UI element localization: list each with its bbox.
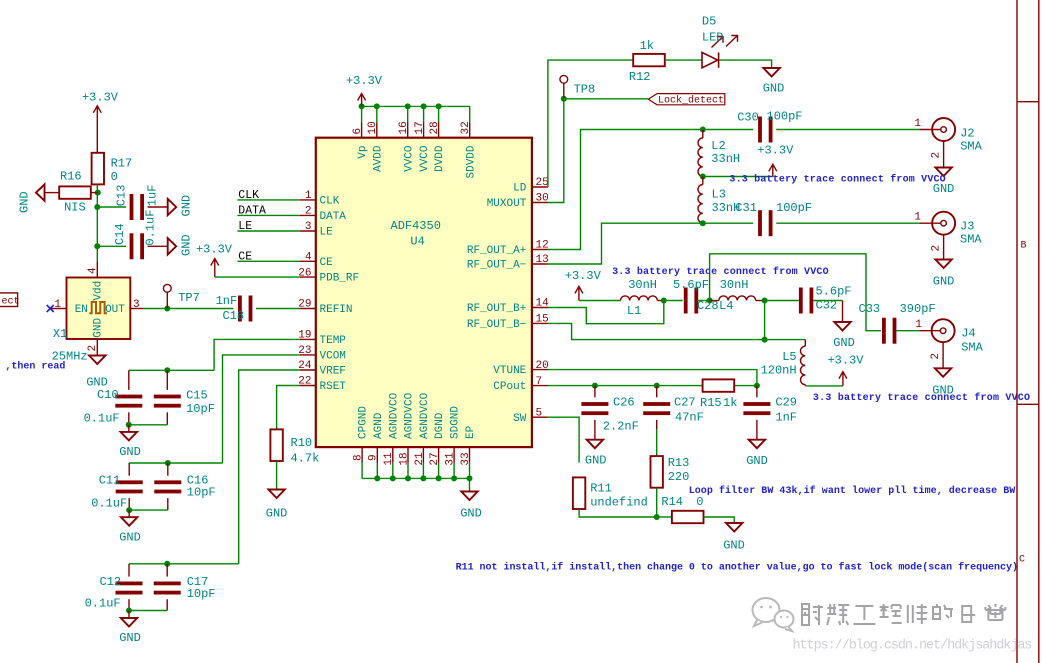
svg-text:3.3 battery trace connect from: 3.3 battery trace connect from VVCO xyxy=(729,174,945,186)
wire R17 bottom to X1 xyxy=(96,184,98,262)
svg-text:undefind: undefind xyxy=(590,496,648,510)
svg-text:J3: J3 xyxy=(960,220,974,234)
wire MUXOUT up xyxy=(548,99,564,203)
svg-text:VVCO: VVCO xyxy=(419,145,431,172)
svg-text:Loop filter BW 43k,if want low: Loop filter BW 43k,if want lower pll tim… xyxy=(689,485,1016,497)
connector J3 SMA xyxy=(919,222,940,224)
svg-text:GND: GND xyxy=(119,445,141,459)
pin 4 X1 top xyxy=(96,262,98,278)
ground C26 xyxy=(587,440,603,449)
svg-text:17: 17 xyxy=(414,121,426,134)
svg-text:L1: L1 xyxy=(627,304,641,318)
inductor L2 xyxy=(702,130,704,139)
svg-text:CPGND: CPGND xyxy=(358,406,370,439)
svg-text:+3.3V: +3.3V xyxy=(565,269,602,283)
pin 29 stub xyxy=(300,308,316,310)
svg-text:R11 not install,if install,the: R11 not install,if install,then change 0… xyxy=(456,562,1018,574)
svg-text:GND: GND xyxy=(585,454,607,468)
wire R10 to gnd xyxy=(276,461,278,490)
wire LE xyxy=(237,230,299,232)
svg-text:GND: GND xyxy=(833,336,855,350)
svg-text:DGND: DGND xyxy=(434,412,446,439)
pin 28 DVDD top stub xyxy=(438,122,440,138)
svg-text:C15: C15 xyxy=(186,389,208,403)
svg-text:C14: C14 xyxy=(113,223,127,245)
svg-text:R15: R15 xyxy=(700,396,722,410)
svg-text:PDB_RF: PDB_RF xyxy=(320,273,360,285)
junction xyxy=(374,475,380,481)
wire LD up to R12 xyxy=(548,60,633,187)
inductor L3 xyxy=(702,177,704,185)
pin 8 CPGND bottom stub xyxy=(361,447,363,463)
svg-text:ect: ect xyxy=(2,296,20,307)
svg-text:29: 29 xyxy=(298,299,311,311)
svg-text:16: 16 xyxy=(398,121,410,134)
watermark wechat icon xyxy=(753,598,794,631)
capacitor C11 xyxy=(128,463,130,476)
svg-text:C18: C18 xyxy=(223,309,245,323)
svg-text:CE: CE xyxy=(320,257,334,269)
wire C26 to gnd xyxy=(594,420,596,440)
wire C11 bank bottom xyxy=(128,498,130,510)
wire node to R14 xyxy=(657,516,672,518)
svg-text:1: 1 xyxy=(915,319,922,331)
svg-text:28: 28 xyxy=(429,121,441,134)
node L4/C32 junction xyxy=(762,298,768,304)
svg-text:SMA: SMA xyxy=(961,341,983,355)
svg-text:R16: R16 xyxy=(60,170,82,184)
svg-text:1k: 1k xyxy=(723,396,737,410)
wire PDB_RF xyxy=(215,276,300,278)
svg-text:CPout: CPout xyxy=(493,381,526,393)
svg-text:L3: L3 xyxy=(712,187,726,201)
sheet border inner line xyxy=(1016,0,1018,663)
junction xyxy=(405,103,411,109)
svg-text:SDVDD: SDVDD xyxy=(465,145,477,178)
wire C12 bank bottom xyxy=(128,599,130,610)
svg-text:GND: GND xyxy=(119,631,141,645)
pin 32 SDVDD top stub xyxy=(469,122,471,138)
border tick 1 xyxy=(1017,101,1039,103)
node L3 bottom xyxy=(700,220,706,226)
svg-text:B: B xyxy=(1020,241,1026,252)
svg-text:C27: C27 xyxy=(674,396,696,410)
svg-text:GND: GND xyxy=(266,507,288,521)
svg-text:120nH: 120nH xyxy=(761,364,797,378)
global label Lock_detect xyxy=(648,94,725,105)
svg-text:CE: CE xyxy=(238,250,252,263)
svg-text:GND: GND xyxy=(119,531,141,545)
capacitor C29 xyxy=(756,386,758,398)
pin 18 AGNDVCO bottom stub xyxy=(407,447,409,463)
wire RF_OUT_B+ detour xyxy=(548,301,664,324)
svg-text:100pF: 100pF xyxy=(776,201,812,215)
IC U4 ADF4350 body xyxy=(316,138,532,447)
svg-text:33nH: 33nH xyxy=(711,152,740,166)
pin 17 VVCO top stub xyxy=(423,122,425,138)
svg-text:30nH: 30nH xyxy=(628,278,657,292)
svg-text:TP7: TP7 xyxy=(178,291,200,305)
top power bus wire xyxy=(362,105,470,107)
watermark CJK text xyxy=(802,604,1005,625)
wire TEMP to C10 bank xyxy=(214,339,300,370)
svg-text:TP8: TP8 xyxy=(574,83,596,97)
svg-text:SMA: SMA xyxy=(960,233,982,247)
svg-text:AGNDVCO: AGNDVCO xyxy=(404,392,416,439)
junction xyxy=(451,475,457,481)
svg-text:0.1uF: 0.1uF xyxy=(85,597,121,611)
ground R14 xyxy=(726,523,742,532)
svg-text:+3.3V: +3.3V xyxy=(196,243,233,257)
capacitor C18 xyxy=(238,296,242,322)
inductor L4 xyxy=(710,300,719,302)
svg-text:C26: C26 xyxy=(613,396,635,410)
wire R13 to node xyxy=(656,488,658,517)
svg-text:30: 30 xyxy=(536,193,549,205)
ground C29 xyxy=(749,440,765,449)
svg-text:19: 19 xyxy=(298,330,311,342)
pin 14 stub xyxy=(532,307,548,309)
svg-text:0.1uF: 0.1uF xyxy=(143,210,157,246)
wire to C13 xyxy=(97,206,126,208)
node C28/L4 junction xyxy=(707,298,713,304)
svg-text:VTUNE: VTUNE xyxy=(493,365,526,377)
svg-text:31: 31 xyxy=(445,452,457,466)
global label ect (cut off) xyxy=(0,293,18,307)
svg-text:AVDD: AVDD xyxy=(372,145,384,172)
junction xyxy=(420,475,426,481)
power +3.3V L5 xyxy=(839,372,847,386)
ground left of R16 xyxy=(44,192,59,194)
connector J2 SMA xyxy=(919,129,940,131)
svg-text:NIS: NIS xyxy=(64,200,86,214)
LED D5 xyxy=(702,52,718,67)
svg-text:2.2nF: 2.2nF xyxy=(603,420,639,434)
resistor R13 xyxy=(651,456,663,488)
svg-text:L5: L5 xyxy=(782,350,796,364)
svg-text:TEMP: TEMP xyxy=(320,335,347,347)
pin 7 stub xyxy=(532,385,548,387)
svg-text:OUT: OUT xyxy=(105,304,125,316)
pin 1 stub xyxy=(300,199,316,201)
resistor R14 xyxy=(672,511,704,523)
capacitor C14 xyxy=(130,233,134,259)
wire R14 to gnd xyxy=(704,517,735,523)
wire to C32 xyxy=(765,300,799,302)
resistor R11 xyxy=(573,477,585,509)
wire C27 to R13 xyxy=(656,420,658,429)
wire C29 to gnd xyxy=(756,420,758,440)
svg-text:11: 11 xyxy=(383,452,395,466)
capacitor C10 xyxy=(128,370,130,390)
svg-text:R13: R13 xyxy=(668,456,690,470)
pin 12 stub xyxy=(532,249,548,251)
wire R16 right lead xyxy=(91,192,98,194)
svg-text:3.3 battery trace connect from: 3.3 battery trace connect from VVCO xyxy=(813,392,1030,404)
svg-text:SDGND: SDGND xyxy=(450,406,462,439)
pin 10 AVDD top stub xyxy=(376,122,378,138)
node TP8 junction xyxy=(561,96,567,102)
svg-text:EP: EP xyxy=(465,425,477,439)
svg-text:J4: J4 xyxy=(961,327,975,341)
wire +3.3V to L1 xyxy=(579,300,621,302)
power +3.3V L2/L3 xyxy=(769,164,777,176)
wire to Lock_detect xyxy=(564,98,649,100)
svg-text:1: 1 xyxy=(54,299,61,311)
svg-text:GND: GND xyxy=(746,454,768,468)
svg-text:9: 9 xyxy=(368,454,380,461)
ground C12 bank xyxy=(128,611,130,619)
svg-text:0.1uF: 0.1uF xyxy=(84,412,120,426)
svg-text:1nF: 1nF xyxy=(216,294,238,308)
svg-text:27: 27 xyxy=(429,452,441,465)
svg-text:R10: R10 xyxy=(291,436,313,450)
svg-text:1: 1 xyxy=(305,190,312,202)
pin 11 AGNDVCO bottom stub xyxy=(392,447,394,463)
svg-text:1uF: 1uF xyxy=(145,185,159,207)
power +3.3V for PDB_RF xyxy=(211,259,219,278)
svg-text:SMA: SMA xyxy=(960,140,982,154)
svg-text:33: 33 xyxy=(460,452,472,465)
svg-text:GND: GND xyxy=(933,275,955,289)
ground X1 xyxy=(89,356,105,365)
pin 24 stub xyxy=(300,369,316,371)
power +3.3V top xyxy=(358,94,366,107)
wire C18 to REFIN xyxy=(256,308,300,310)
svg-text:4: 4 xyxy=(87,267,99,274)
svg-text:R14: R14 xyxy=(661,495,683,509)
svg-text:+3.3V: +3.3V xyxy=(757,144,794,158)
svg-text:GND: GND xyxy=(18,191,32,213)
resistor R12 xyxy=(633,54,665,66)
svg-text:12: 12 xyxy=(536,240,549,252)
svg-text:C: C xyxy=(1019,555,1025,566)
pin 22 stub xyxy=(300,385,316,387)
svg-text:VVCO: VVCO xyxy=(403,145,415,172)
capacitor C15 xyxy=(166,370,168,390)
ground C32 xyxy=(834,322,850,331)
wire C14 to gnd xyxy=(148,245,168,247)
pin 20 stub xyxy=(532,369,548,371)
pin 31 SDGND bottom stub xyxy=(453,447,455,463)
svg-text:GND: GND xyxy=(180,234,194,256)
svg-text:2: 2 xyxy=(931,152,943,159)
resistor R17 xyxy=(92,153,104,185)
svg-text:0.1uF: 0.1uF xyxy=(91,497,127,511)
svg-text:+3.3V: +3.3V xyxy=(82,90,119,104)
svg-text:DATA: DATA xyxy=(320,211,347,223)
wire CLK xyxy=(237,199,299,201)
junction xyxy=(467,475,473,481)
svg-text:X1: X1 xyxy=(53,327,67,341)
pin 21 AGNDVCO bottom stub xyxy=(422,447,424,463)
capacitor C12 xyxy=(128,564,130,577)
svg-text:10pF: 10pF xyxy=(187,486,216,500)
svg-text:2: 2 xyxy=(305,206,312,218)
wire C10 bank bottom xyxy=(128,412,130,425)
pin 16 VVCO top stub xyxy=(407,122,409,138)
svg-text:RF_OUT_B+: RF_OUT_B+ xyxy=(467,303,526,315)
svg-text:EN: EN xyxy=(75,304,88,316)
wire RF_OUT_B- xyxy=(548,323,805,339)
svg-text:20: 20 xyxy=(536,360,549,372)
ground J3 xyxy=(935,260,951,269)
svg-text:C11: C11 xyxy=(99,474,121,488)
junction xyxy=(374,103,380,109)
svg-text:AGNDVCO: AGNDVCO xyxy=(388,392,400,439)
svg-text:C13: C13 xyxy=(114,185,128,207)
svg-text:C12: C12 xyxy=(100,575,122,589)
svg-text:REFIN: REFIN xyxy=(320,304,353,316)
node C29/VTUNE junction xyxy=(754,383,760,389)
svg-text:MUXOUT: MUXOUT xyxy=(487,198,527,210)
capacitor C33 xyxy=(882,318,886,344)
svg-text:R12: R12 xyxy=(629,70,651,84)
svg-text:RSET: RSET xyxy=(320,381,347,393)
junction xyxy=(390,475,396,481)
node C13 tap xyxy=(94,204,100,210)
svg-text:47nF: 47nF xyxy=(675,411,704,425)
svg-text:Vp: Vp xyxy=(357,145,369,158)
ground J4 xyxy=(935,368,951,377)
svg-text:13: 13 xyxy=(536,254,549,266)
wire CE xyxy=(237,260,299,262)
svg-text:D5: D5 xyxy=(702,15,716,29)
pin 5 stub xyxy=(532,416,548,418)
svg-text:+3.3V: +3.3V xyxy=(827,354,864,368)
svg-text:25: 25 xyxy=(536,177,549,189)
ground right of C14 xyxy=(168,238,177,254)
svg-text:4: 4 xyxy=(305,252,312,264)
node C15 tap xyxy=(164,367,170,373)
node R13/R14 junction xyxy=(654,514,660,520)
svg-text:26: 26 xyxy=(298,267,311,279)
svg-text:23: 23 xyxy=(298,345,311,357)
svg-text:J2: J2 xyxy=(960,127,974,141)
pin 26 stub xyxy=(300,276,316,278)
wire OUT to C18 xyxy=(144,308,234,310)
ground J2 xyxy=(935,168,951,177)
svg-text:100pF: 100pF xyxy=(767,110,803,124)
svg-text:220: 220 xyxy=(668,470,690,484)
wire C32 to gnd xyxy=(813,300,842,302)
svg-text:,then read: ,then read xyxy=(5,361,65,373)
node C12 gnd junction xyxy=(126,608,132,614)
svg-text:GND: GND xyxy=(180,195,194,217)
pin 3 X1 OUT xyxy=(130,308,144,310)
svg-text:R17: R17 xyxy=(111,157,133,171)
pin 27 DGND bottom stub xyxy=(438,447,440,463)
svg-text:LD: LD xyxy=(513,183,527,195)
svg-text:0: 0 xyxy=(111,170,118,184)
resistor R16 xyxy=(59,186,91,198)
pin 9 AGND bottom stub xyxy=(376,447,378,463)
ground C11 bank xyxy=(128,510,130,517)
wire to C28 xyxy=(664,300,683,302)
svg-text:1nF: 1nF xyxy=(775,411,797,425)
svg-text:GND: GND xyxy=(93,317,105,337)
svg-text:10: 10 xyxy=(367,121,379,134)
svg-text:C29: C29 xyxy=(775,396,797,410)
capacitor C28 xyxy=(684,288,688,314)
wire riser L4/C32 to B- xyxy=(764,301,766,340)
svg-text:8: 8 xyxy=(353,454,365,461)
wire C10 bank top xyxy=(129,369,214,371)
node R16/R17 junction xyxy=(95,190,101,196)
node L2/L3 junction xyxy=(700,174,706,180)
node B- riser junction xyxy=(762,337,768,343)
svg-text:21: 21 xyxy=(414,452,426,466)
svg-text:U4: U4 xyxy=(410,235,424,249)
wire VCOM to C11 bank xyxy=(223,355,300,463)
svg-text:5.6pF: 5.6pF xyxy=(673,278,709,292)
ground R10 xyxy=(268,490,284,499)
no-connect X on EN xyxy=(47,305,54,312)
svg-text:AGNDVCO: AGNDVCO xyxy=(419,392,431,439)
svg-text:2: 2 xyxy=(930,353,942,360)
node L1/C28 junction xyxy=(661,298,667,304)
ground right of C13 xyxy=(168,199,177,215)
svg-text:C30: C30 xyxy=(737,110,759,124)
svg-text:C33: C33 xyxy=(859,302,881,316)
svg-text:30nH: 30nH xyxy=(720,278,749,292)
pin 13 stub xyxy=(532,263,548,265)
border tick 2 xyxy=(1017,403,1039,405)
node C11 gnd junction xyxy=(126,507,132,513)
node C14 tap xyxy=(94,243,100,249)
node C26 tap xyxy=(592,383,598,389)
power +3.3V top-left xyxy=(93,106,101,153)
ground IC bottom xyxy=(469,478,471,491)
pin 1 X1 EN xyxy=(50,308,66,310)
svg-text:VREF: VREF xyxy=(320,366,346,378)
svg-text:6: 6 xyxy=(352,128,364,135)
capacitor C13 xyxy=(130,194,134,220)
resistor R15 xyxy=(703,379,735,391)
svg-text:C10: C10 xyxy=(97,388,119,402)
capacitor C32 xyxy=(799,288,803,314)
wire RSET to R10 xyxy=(277,386,300,430)
junction xyxy=(436,475,442,481)
svg-text:2: 2 xyxy=(931,245,943,252)
wire LED to gnd xyxy=(720,60,772,68)
crystal glyph inside X1 xyxy=(89,302,107,313)
svg-text:2: 2 xyxy=(87,345,99,352)
wire R12 to LED xyxy=(665,59,702,61)
resistor R10 xyxy=(270,429,282,461)
power +3.3V L1 xyxy=(575,286,583,300)
wire DATA xyxy=(237,214,299,216)
pin 2 J4 xyxy=(942,342,944,368)
svg-text:14: 14 xyxy=(536,298,550,310)
svg-text:22: 22 xyxy=(298,376,311,388)
svg-text:CLK: CLK xyxy=(238,189,259,202)
svg-text:18: 18 xyxy=(398,452,410,465)
svg-text:https://blog.csdn.net/hdkjsahd: https://blog.csdn.net/hdkjsahdkjas xyxy=(793,639,1033,654)
svg-text:CLK: CLK xyxy=(320,196,340,208)
svg-text:RF_OUT_A+: RF_OUT_A+ xyxy=(467,245,526,257)
svg-text:24: 24 xyxy=(298,360,312,372)
pin 2 J2 xyxy=(943,141,945,168)
svg-text:ADF4350: ADF4350 xyxy=(391,219,441,233)
svg-text:3.3 battery trace connect from: 3.3 battery trace connect from VVCO xyxy=(612,266,829,278)
svg-text:LE: LE xyxy=(320,227,334,239)
svg-text:DATA: DATA xyxy=(238,204,266,217)
inductor L1 xyxy=(621,296,658,301)
wire C28 to L4 xyxy=(697,300,710,302)
wire L5 bottom to +3.3V xyxy=(805,385,843,387)
wire SW to R11 xyxy=(548,417,579,462)
